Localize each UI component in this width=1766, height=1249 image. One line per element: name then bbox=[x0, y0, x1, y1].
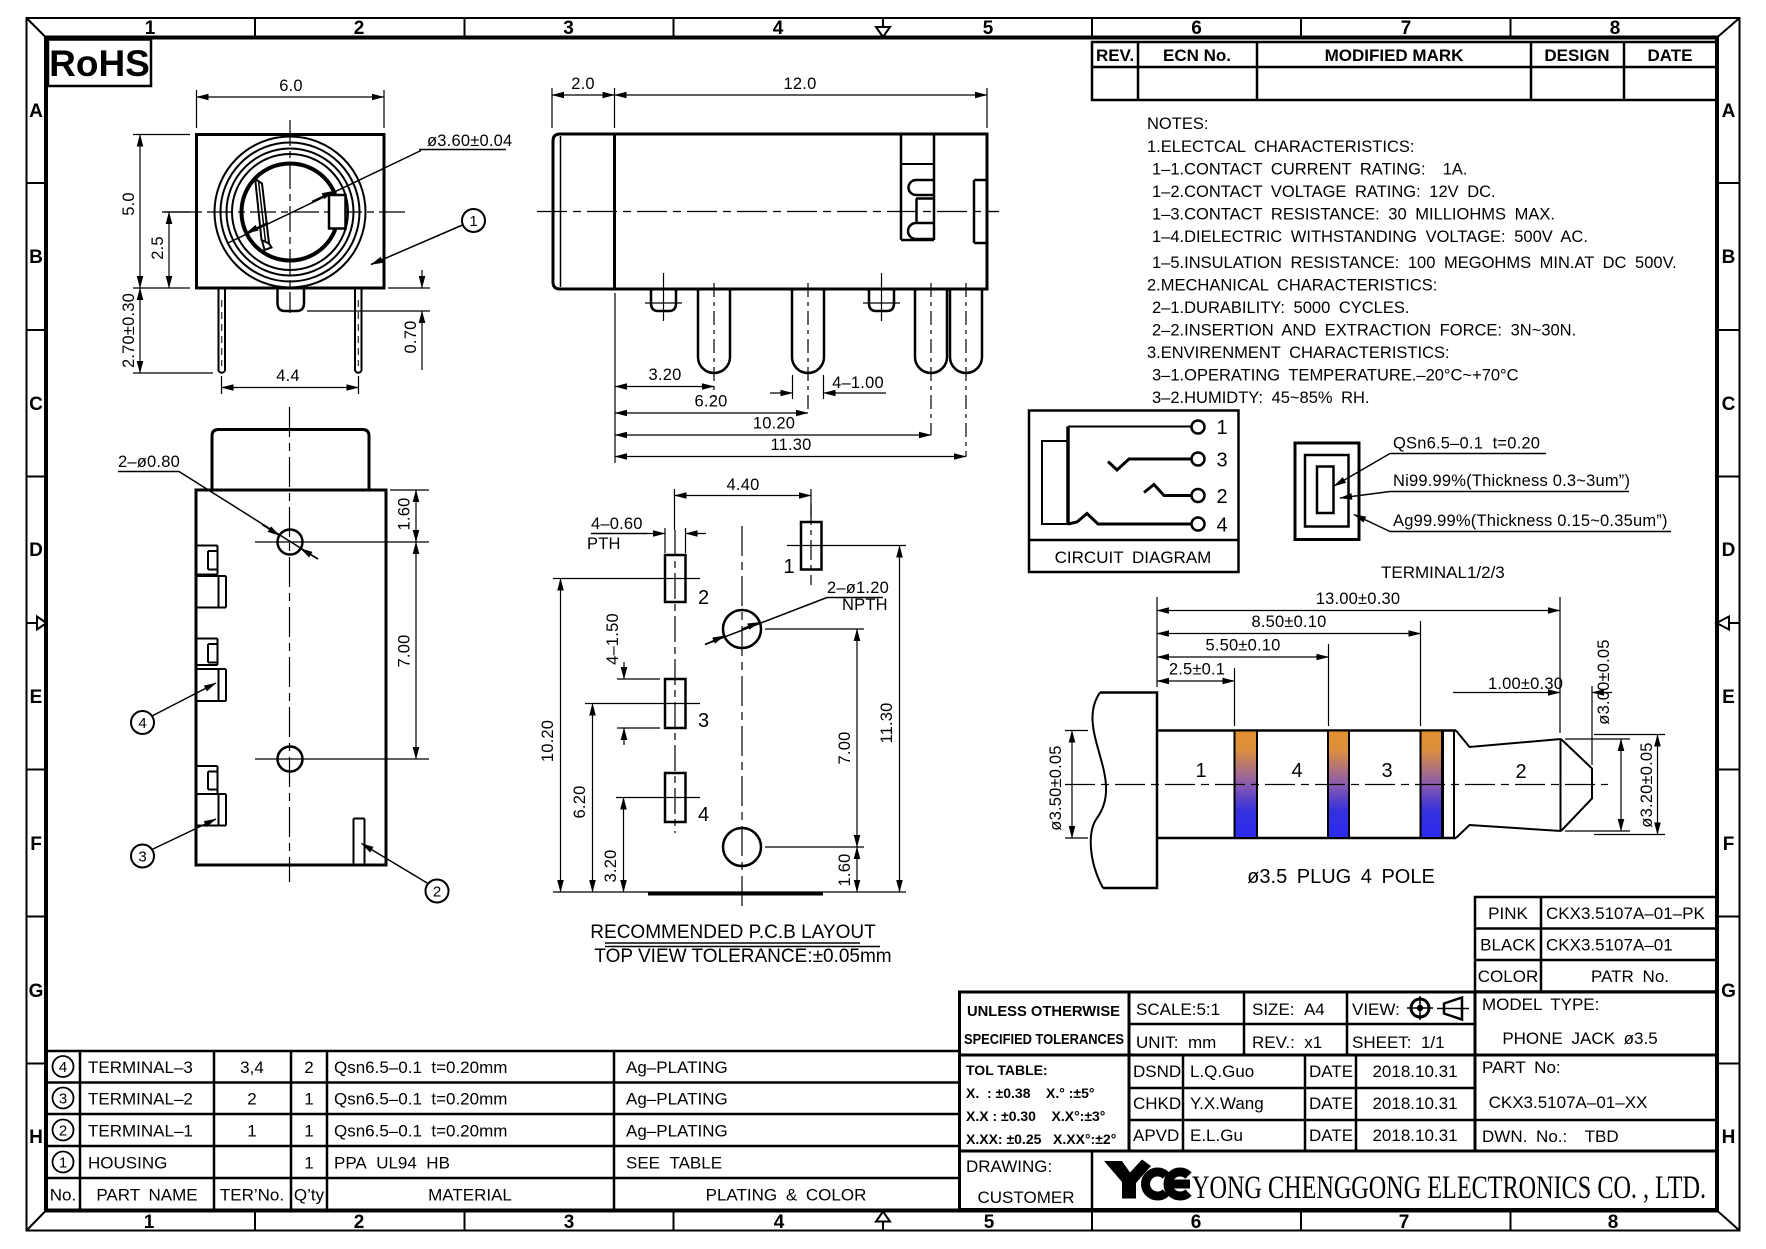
dim dia3.00 bbox=[1565, 738, 1630, 740]
knob cap bbox=[212, 430, 369, 491]
svg-text:2.5±0.1: 2.5±0.1 bbox=[1169, 661, 1225, 679]
insulator band 1 bbox=[1235, 731, 1258, 839]
svg-text:1.00±0.30: 1.00±0.30 bbox=[1488, 675, 1563, 693]
body outline bottom view bbox=[196, 490, 386, 865]
svg-text:TERMINAL–2: TERMINAL–2 bbox=[88, 1090, 193, 1109]
svg-text:3: 3 bbox=[698, 710, 709, 732]
dim 2.70+-0.30 bbox=[133, 372, 213, 374]
svg-text:ø3.5 PLUG 4 POLE: ø3.5 PLUG 4 POLE bbox=[1247, 866, 1435, 888]
svg-text:3.20: 3.20 bbox=[649, 366, 682, 384]
balloon 4 bbox=[131, 711, 154, 734]
svg-text:1: 1 bbox=[469, 213, 477, 230]
svg-text:1: 1 bbox=[304, 1122, 313, 1141]
svg-text:CUSTOMER: CUSTOMER bbox=[978, 1188, 1075, 1207]
svg-text:3.ENVIRENMENT CHARACTERISTICS:: 3.ENVIRENMENT CHARACTERISTICS: bbox=[1147, 344, 1450, 362]
revision table bbox=[1092, 42, 1717, 100]
pcb edge line bbox=[648, 892, 823, 896]
svg-text:DRAWING:: DRAWING: bbox=[966, 1157, 1052, 1176]
svg-text:4.40: 4.40 bbox=[727, 476, 760, 494]
dim 4.4 bbox=[221, 376, 223, 394]
svg-text:3–1.OPERATING TEMPERATURE.–20°: 3–1.OPERATING TEMPERATURE.–20°C~+70°C bbox=[1152, 367, 1519, 385]
svg-text:2: 2 bbox=[304, 1058, 313, 1077]
dim 13.00 bbox=[1156, 597, 1158, 687]
pin 4 circle bbox=[1192, 518, 1205, 531]
svg-text:6.20: 6.20 bbox=[571, 786, 589, 819]
svg-text:CIRCUIT DIAGRAM: CIRCUIT DIAGRAM bbox=[1055, 548, 1212, 567]
svg-text:1–1.CONTACT CURRENT RATING: 1: 1–1.CONTACT CURRENT RATING: 1A. bbox=[1152, 161, 1468, 179]
svg-text:2: 2 bbox=[698, 587, 709, 609]
svg-text:7: 7 bbox=[1399, 1212, 1410, 1233]
pin 3 circle bbox=[1192, 453, 1205, 466]
svg-text:HOUSING: HOUSING bbox=[88, 1154, 167, 1173]
svg-text:4.4: 4.4 bbox=[276, 367, 300, 385]
svg-text:APVD: APVD bbox=[1133, 1126, 1179, 1145]
dim 10.20 pcb bbox=[560, 579, 562, 893]
terminal group 3 (bottom) bbox=[197, 766, 226, 826]
svg-text:C: C bbox=[1722, 394, 1736, 415]
svg-text:1: 1 bbox=[1195, 760, 1206, 782]
notes text bbox=[1147, 115, 1677, 407]
dim 11.30 side bbox=[615, 456, 966, 458]
side lock pin small B bbox=[869, 289, 894, 311]
svg-text:2: 2 bbox=[59, 1123, 67, 1140]
svg-text:E.L.Gu: E.L.Gu bbox=[1190, 1126, 1243, 1145]
svg-text:11.30: 11.30 bbox=[770, 436, 811, 454]
cable boot block bbox=[1100, 693, 1157, 889]
upper contact spring bbox=[909, 180, 934, 195]
pad 2 bbox=[665, 555, 686, 602]
svg-text:1–5.INSULATION RESISTANCE: 100: 1–5.INSULATION RESISTANCE: 100 MEGOHMS M… bbox=[1152, 254, 1677, 272]
pad 1 bbox=[801, 522, 822, 570]
svg-text:11.30: 11.30 bbox=[878, 702, 896, 743]
svg-text:MATERIAL: MATERIAL bbox=[428, 1186, 512, 1205]
dim 3.20 side bbox=[614, 293, 616, 463]
terminal group 2 (middle) bbox=[197, 639, 226, 702]
flange inner line bbox=[560, 136, 562, 287]
svg-text:6.0: 6.0 bbox=[279, 77, 303, 95]
svg-text:DSND: DSND bbox=[1133, 1062, 1181, 1081]
svg-text:NOTES:: NOTES: bbox=[1147, 115, 1208, 133]
svg-text:2.0: 2.0 bbox=[571, 75, 595, 93]
pin 1 circle bbox=[1192, 421, 1205, 434]
side terminal pin 1 bbox=[698, 289, 730, 373]
dim 2.5 bbox=[162, 211, 196, 213]
svg-text:Ag–PLATING: Ag–PLATING bbox=[626, 1058, 728, 1077]
svg-text:E: E bbox=[1722, 687, 1735, 708]
svg-text:H: H bbox=[1722, 1127, 1736, 1148]
side lock pin small A bbox=[651, 289, 676, 311]
front pin left bbox=[219, 289, 226, 373]
plug shaft bbox=[1157, 729, 1456, 732]
dim 2.0 side bbox=[551, 88, 553, 128]
svg-text:12.0: 12.0 bbox=[784, 75, 817, 93]
sleeve contact bbox=[1042, 441, 1068, 524]
RoHS mark bbox=[48, 40, 151, 87]
svg-text:Ag–PLATING: Ag–PLATING bbox=[626, 1122, 728, 1141]
svg-text:4: 4 bbox=[1291, 760, 1302, 782]
svg-text:CKX3.5107A–01: CKX3.5107A–01 bbox=[1546, 936, 1673, 955]
svg-text:CKX3.5107A–01–PK: CKX3.5107A–01–PK bbox=[1546, 904, 1705, 923]
balloon 3 bbox=[131, 845, 154, 868]
dim 12.0 side bbox=[986, 88, 988, 128]
svg-text:2–1.DURABILITY: 5000 CYCLES.: 2–1.DURABILITY: 5000 CYCLES. bbox=[1152, 299, 1409, 317]
grid ticks bottom bbox=[255, 1211, 1511, 1231]
svg-text:C: C bbox=[29, 394, 43, 415]
dim 6.0 bbox=[196, 90, 198, 128]
dim 6.20 pcb bbox=[592, 704, 594, 893]
svg-text:SIZE: A4: SIZE: A4 bbox=[1252, 1000, 1325, 1019]
dim 10.20 side bbox=[615, 434, 931, 436]
svg-text:PLATING & COLOR: PLATING & COLOR bbox=[706, 1186, 867, 1205]
svg-text:RoHS: RoHS bbox=[49, 43, 150, 84]
side terminal tab right bbox=[973, 180, 976, 243]
svg-text:Qsn6.5–0.1 t=0.20mm: Qsn6.5–0.1 t=0.20mm bbox=[334, 1122, 507, 1141]
svg-text:TER’No.: TER’No. bbox=[220, 1186, 284, 1205]
svg-text:2: 2 bbox=[433, 884, 441, 901]
svg-text:2–2.INSERTION AND EXTRACTION F: 2–2.INSERTION AND EXTRACTION FORCE: 3N~3… bbox=[1152, 322, 1576, 340]
svg-text:1–3.CONTACT RESISTANCE: 30 MIL: 1–3.CONTACT RESISTANCE: 30 MILLIOHMS MAX… bbox=[1152, 206, 1555, 224]
YCG logo bbox=[1104, 1160, 1190, 1199]
NPTH hole top bbox=[723, 610, 761, 648]
view icon cone bbox=[1444, 998, 1462, 1020]
svg-text:1: 1 bbox=[247, 1122, 256, 1141]
jack bore circles bbox=[215, 137, 366, 288]
row housing bbox=[53, 1152, 74, 1173]
svg-text:1: 1 bbox=[144, 1212, 155, 1233]
svg-text:SPECIFIED TOLERANCES: SPECIFIED TOLERANCES bbox=[964, 1031, 1124, 1048]
svg-text:2: 2 bbox=[354, 18, 365, 39]
dim 2.5 bbox=[1234, 668, 1236, 726]
svg-text:4: 4 bbox=[698, 804, 709, 826]
dim 5.50 bbox=[1328, 644, 1330, 726]
dim 7.00 pcb bbox=[765, 628, 864, 630]
svg-text:Ni99.99%(Thickness 0.3~3um”): Ni99.99%(Thickness 0.3~3um”) bbox=[1393, 472, 1630, 490]
svg-text:3.20: 3.20 bbox=[602, 850, 620, 883]
housing outline front bbox=[197, 135, 385, 289]
svg-text:X.X : ±0.30 X.X°:±3°: X.X : ±0.30 X.X°:±3° bbox=[966, 1108, 1105, 1124]
balloon 2 bbox=[426, 880, 449, 903]
svg-text:2–ø1.20: 2–ø1.20 bbox=[827, 579, 889, 597]
dim 0.70 bbox=[388, 287, 430, 289]
svg-text:1: 1 bbox=[783, 556, 794, 578]
svg-text:DATE: DATE bbox=[1309, 1062, 1353, 1081]
svg-text:2.MECHANICAL CHARACTERISTICS:: 2.MECHANICAL CHARACTERISTICS: bbox=[1147, 277, 1437, 295]
svg-text:F: F bbox=[30, 834, 42, 855]
dim 3.20 pcb bbox=[623, 798, 625, 893]
side terminal pin 2 bbox=[792, 289, 824, 373]
svg-text:3–2.HUMIDTY: 45~85% RH.: 3–2.HUMIDTY: 45~85% RH. bbox=[1152, 389, 1370, 407]
svg-text:RECOMMENDED P.C.B LAYOUT: RECOMMENDED P.C.B LAYOUT bbox=[590, 922, 876, 943]
svg-text:L.Q.Guo: L.Q.Guo bbox=[1190, 1062, 1254, 1081]
svg-text:7: 7 bbox=[1401, 18, 1412, 39]
svg-text:5.50±0.10: 5.50±0.10 bbox=[1205, 637, 1280, 655]
tip cone bbox=[1456, 731, 1561, 748]
svg-text:4–0.60: 4–0.60 bbox=[591, 515, 643, 533]
svg-text:D: D bbox=[29, 540, 43, 561]
grid ticks right bbox=[1717, 183, 1740, 1064]
svg-text:3: 3 bbox=[563, 18, 574, 39]
svg-text:SCALE:5:1: SCALE:5:1 bbox=[1136, 1000, 1220, 1019]
svg-text:DWN. No.: TBD: DWN. No.: TBD bbox=[1482, 1127, 1619, 1146]
row terminal-1 bbox=[53, 1120, 74, 1141]
ring grooves bbox=[1442, 731, 1444, 839]
internal contact cavity bbox=[900, 134, 903, 240]
front center bushing pin bbox=[278, 289, 305, 311]
row terminal-3 bbox=[53, 1056, 74, 1077]
svg-text:REV.: REV. bbox=[1096, 46, 1134, 65]
svg-text:F: F bbox=[1723, 834, 1735, 855]
svg-text:ø3.60±0.04: ø3.60±0.04 bbox=[427, 132, 512, 150]
NPTH hole bottom bbox=[723, 828, 761, 866]
break wave bbox=[1091, 693, 1106, 889]
centerline side bbox=[537, 211, 999, 213]
svg-text:X. : ±0.38 X.° :±5°: X. : ±0.38 X.° :±5° bbox=[966, 1085, 1095, 1101]
svg-text:2018.10.31: 2018.10.31 bbox=[1372, 1062, 1457, 1081]
contact lever blade bbox=[255, 179, 269, 244]
svg-text:BLACK: BLACK bbox=[1480, 936, 1536, 955]
pad 3 bbox=[665, 679, 686, 728]
centerline vertical front bbox=[289, 120, 291, 313]
corner terminal notch bbox=[354, 818, 365, 820]
svg-text:SHEET: 1/1: SHEET: 1/1 bbox=[1352, 1033, 1445, 1052]
svg-text:2: 2 bbox=[1515, 761, 1526, 783]
plug centerline bbox=[1065, 784, 1608, 786]
svg-text:6: 6 bbox=[1191, 1212, 1202, 1233]
svg-text:DATE: DATE bbox=[1309, 1126, 1353, 1145]
svg-text:4: 4 bbox=[138, 715, 146, 732]
contact window bbox=[329, 195, 346, 229]
svg-text:DATE: DATE bbox=[1647, 46, 1692, 65]
svg-text:4: 4 bbox=[1216, 515, 1227, 537]
svg-text:6: 6 bbox=[1191, 18, 1202, 39]
svg-text:PATR No.: PATR No. bbox=[1591, 967, 1669, 986]
wire pin2 bbox=[1144, 485, 1191, 496]
svg-text:PART NAME: PART NAME bbox=[96, 1186, 197, 1205]
svg-text:3: 3 bbox=[138, 849, 146, 866]
svg-text:Qsn6.5–0.1 t=0.20mm: Qsn6.5–0.1 t=0.20mm bbox=[334, 1058, 507, 1077]
svg-text:0.70: 0.70 bbox=[402, 321, 420, 354]
svg-text:5: 5 bbox=[983, 18, 994, 39]
dim 7.00 bottom view bbox=[322, 758, 429, 760]
svg-text:MODIFIED MARK: MODIFIED MARK bbox=[1325, 46, 1465, 65]
svg-text:COLOR: COLOR bbox=[1478, 967, 1538, 986]
svg-text:NPTH: NPTH bbox=[842, 596, 888, 614]
pcb centerline bbox=[741, 526, 743, 912]
svg-text:TERMINAL–1: TERMINAL–1 bbox=[88, 1122, 193, 1141]
svg-text:CKX3.5107A–01–XX: CKX3.5107A–01–XX bbox=[1489, 1093, 1648, 1112]
svg-text:1.ELECTCAL CHARACTERISTICS:: 1.ELECTCAL CHARACTERISTICS: bbox=[1147, 138, 1414, 156]
svg-text:10.20: 10.20 bbox=[539, 720, 557, 762]
svg-text:No.: No. bbox=[50, 1186, 76, 1205]
housing body side bbox=[553, 134, 987, 289]
svg-text:3: 3 bbox=[1216, 450, 1227, 472]
svg-text:YONG CHENGGONG ELECTRONICS CO.: YONG CHENGGONG ELECTRONICS CO. , LTD. bbox=[1192, 1170, 1706, 1206]
svg-text:1: 1 bbox=[304, 1154, 313, 1173]
svg-text:Y.X.Wang: Y.X.Wang bbox=[1190, 1094, 1264, 1113]
svg-text:G: G bbox=[29, 981, 44, 1002]
svg-text:X.XX: ±0.25 X.XX°:±2°: X.XX: ±0.25 X.XX°:±2° bbox=[966, 1131, 1116, 1147]
terminal group 1 (top) bbox=[197, 546, 226, 608]
svg-text:PART No:: PART No: bbox=[1482, 1058, 1561, 1077]
svg-text:B: B bbox=[29, 247, 43, 268]
svg-text:REV.: x1: REV.: x1 bbox=[1252, 1033, 1322, 1052]
svg-text:D: D bbox=[1722, 540, 1736, 561]
svg-text:PTH: PTH bbox=[587, 535, 621, 553]
side terminal pin 4 bbox=[950, 289, 982, 373]
svg-text:4: 4 bbox=[773, 18, 784, 39]
svg-text:B: B bbox=[1722, 247, 1736, 268]
svg-text:3: 3 bbox=[1381, 760, 1392, 782]
svg-text:1–2.CONTACT VOLTAGE RATING: 12: 1–2.CONTACT VOLTAGE RATING: 12V DC. bbox=[1152, 183, 1496, 201]
mount hole 2 bbox=[278, 747, 303, 772]
flange divider bbox=[613, 134, 616, 289]
svg-text:PINK: PINK bbox=[1488, 904, 1528, 923]
svg-text:H: H bbox=[29, 1127, 43, 1148]
dim 4-1.00 side bbox=[792, 375, 794, 399]
svg-text:1.60: 1.60 bbox=[836, 854, 854, 887]
svg-text:PHONE JACK ø3.5: PHONE JACK ø3.5 bbox=[1502, 1029, 1657, 1048]
svg-text:ECN No.: ECN No. bbox=[1163, 46, 1231, 65]
svg-text:1: 1 bbox=[59, 1155, 67, 1172]
view icon target bbox=[1411, 999, 1429, 1017]
svg-text:5.0: 5.0 bbox=[120, 192, 138, 216]
svg-text:A: A bbox=[1722, 101, 1736, 122]
svg-text:TOL TABLE:: TOL TABLE: bbox=[966, 1062, 1048, 1078]
svg-text:3,4: 3,4 bbox=[240, 1058, 264, 1077]
svg-text:13.00±0.30: 13.00±0.30 bbox=[1316, 590, 1400, 608]
svg-text:MODEL TYPE:: MODEL TYPE: bbox=[1482, 995, 1599, 1014]
svg-text:2: 2 bbox=[247, 1090, 256, 1109]
svg-text:PPA UL94 HB: PPA UL94 HB bbox=[334, 1154, 450, 1173]
lower contact spring bbox=[908, 223, 934, 239]
pcb bottom ext line bbox=[553, 891, 906, 893]
svg-text:2: 2 bbox=[1216, 486, 1227, 508]
svg-text:Ag–PLATING: Ag–PLATING bbox=[626, 1090, 728, 1109]
pin 2 circle bbox=[1192, 489, 1205, 502]
svg-text:2018.10.31: 2018.10.31 bbox=[1372, 1126, 1457, 1145]
svg-text:1–4.DIELECTRIC WITHSTANDING VO: 1–4.DIELECTRIC WITHSTANDING VOLTAGE: 500… bbox=[1152, 228, 1588, 246]
svg-text:E: E bbox=[30, 687, 43, 708]
svg-text:1: 1 bbox=[1216, 417, 1227, 439]
svg-text:7.00: 7.00 bbox=[836, 732, 854, 765]
svg-text:TERMINAL1/2/3: TERMINAL1/2/3 bbox=[1381, 563, 1505, 582]
svg-text:ø3.00±0.05: ø3.00±0.05 bbox=[1595, 639, 1613, 724]
svg-text:Q’ty: Q’ty bbox=[294, 1186, 325, 1205]
svg-text:8: 8 bbox=[1608, 1212, 1619, 1233]
wire pin4 bbox=[1068, 514, 1191, 525]
svg-text:Ag99.99%(Thickness 0.15~0.35u: Ag99.99%(Thickness 0.15~0.35um”) bbox=[1393, 512, 1668, 530]
svg-text:2.70±0.30: 2.70±0.30 bbox=[120, 293, 138, 368]
terminal section outer bbox=[1295, 443, 1359, 540]
svg-text:2.5: 2.5 bbox=[149, 236, 167, 260]
svg-text:QSn6.5–0.1 t=0.20: QSn6.5–0.1 t=0.20 bbox=[1393, 435, 1540, 453]
svg-text:Qsn6.5–0.1 t=0.20mm: Qsn6.5–0.1 t=0.20mm bbox=[334, 1090, 507, 1109]
centerline horizontal front bbox=[164, 211, 405, 213]
svg-text:2–ø0.80: 2–ø0.80 bbox=[118, 453, 180, 471]
svg-text:A: A bbox=[29, 101, 43, 122]
svg-text:UNIT: mm: UNIT: mm bbox=[1136, 1033, 1216, 1052]
svg-text:8.50±0.10: 8.50±0.10 bbox=[1251, 613, 1326, 631]
dim dia3.50 bbox=[1065, 730, 1088, 732]
svg-text:DATE: DATE bbox=[1309, 1094, 1353, 1113]
svg-text:7.00: 7.00 bbox=[396, 635, 414, 668]
wire pin1 bbox=[1068, 426, 1191, 428]
insulator band 2 bbox=[1328, 731, 1349, 839]
svg-text:TOP VIEW TOLERANCE:±0.05mm: TOP VIEW TOLERANCE:±0.05mm bbox=[594, 946, 891, 967]
svg-text:4: 4 bbox=[59, 1059, 67, 1076]
dim 1.60 pcb bbox=[856, 847, 858, 892]
svg-text:G: G bbox=[1721, 981, 1736, 1002]
svg-text:6.20: 6.20 bbox=[695, 393, 728, 411]
svg-text:DESIGN: DESIGN bbox=[1544, 46, 1609, 65]
insulator band 3 bbox=[1421, 731, 1443, 839]
svg-text:3: 3 bbox=[564, 1212, 575, 1233]
side terminal pin 3 bbox=[915, 289, 947, 373]
svg-text:10.20: 10.20 bbox=[753, 415, 795, 433]
svg-text:1: 1 bbox=[145, 18, 156, 39]
svg-text:CHKD: CHKD bbox=[1133, 1094, 1181, 1113]
dim 8.50 bbox=[1420, 621, 1422, 726]
svg-text:TERMINAL–3: TERMINAL–3 bbox=[88, 1058, 193, 1077]
dim 4-1.50 pcb bbox=[617, 678, 660, 680]
leader dia 3.60 bbox=[228, 151, 421, 244]
grid ticks left bbox=[27, 183, 47, 1064]
mount hole 1 bbox=[278, 530, 303, 555]
svg-text:4–1.50: 4–1.50 bbox=[604, 613, 622, 665]
pad 4 bbox=[665, 773, 686, 822]
svg-text:5: 5 bbox=[984, 1212, 995, 1233]
svg-text:4: 4 bbox=[774, 1212, 785, 1233]
centerline bottom view bbox=[289, 407, 291, 882]
dim 4.40 pcb bbox=[674, 489, 676, 530]
dim 5.0 bbox=[133, 134, 190, 136]
svg-text:2018.10.31: 2018.10.31 bbox=[1372, 1094, 1457, 1113]
svg-text:VIEW:: VIEW: bbox=[1352, 1000, 1400, 1019]
pads 2-4 centerline bbox=[674, 530, 676, 833]
svg-text:ø3.50±0.05: ø3.50±0.05 bbox=[1047, 745, 1065, 830]
svg-text:UNLESS OTHERWISE: UNLESS OTHERWISE bbox=[967, 1003, 1120, 1020]
wire pin3 bbox=[1108, 459, 1191, 470]
svg-text:1: 1 bbox=[304, 1090, 313, 1109]
row terminal-2 bbox=[53, 1088, 74, 1109]
svg-text:SEE TABLE: SEE TABLE bbox=[626, 1154, 722, 1173]
dim 11.30 pcb bbox=[899, 546, 901, 893]
svg-text:8: 8 bbox=[1610, 18, 1621, 39]
svg-text:1.60: 1.60 bbox=[396, 498, 414, 531]
svg-text:ø3.20±0.05: ø3.20±0.05 bbox=[1638, 742, 1656, 827]
balloon 1 bbox=[462, 209, 485, 232]
svg-text:4–1.00: 4–1.00 bbox=[832, 374, 884, 392]
front pin right bbox=[355, 289, 362, 373]
dim dia3.20 bbox=[1594, 734, 1665, 736]
svg-text:3: 3 bbox=[59, 1091, 67, 1108]
dim 6.20 side bbox=[615, 412, 808, 414]
svg-text:2: 2 bbox=[354, 1212, 365, 1233]
grid ticks top bbox=[255, 18, 1511, 38]
dim 1.60 bottom view bbox=[390, 489, 429, 491]
